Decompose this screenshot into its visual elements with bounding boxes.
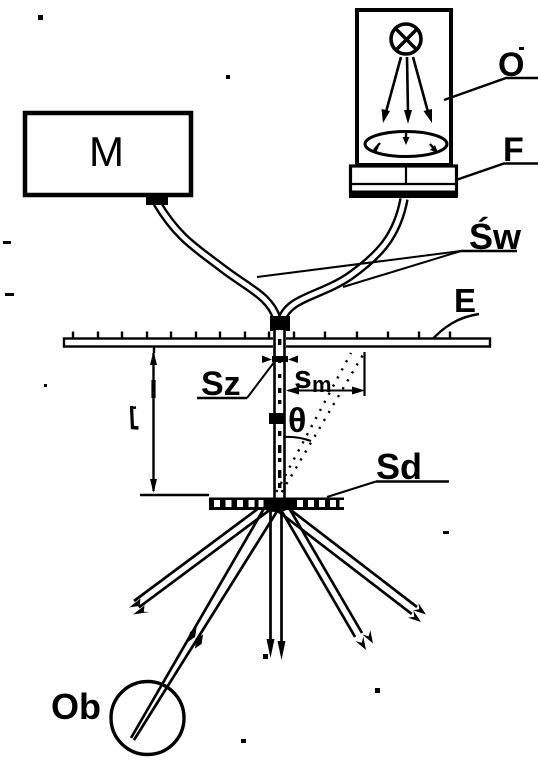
diffracted ray pair far-right with double arrowheads	[278, 504, 426, 622]
lamp housing box O	[357, 10, 451, 165]
label Sd with leader line	[327, 446, 449, 497]
diffracted ray pair far-left with double arrowheads	[129, 502, 272, 615]
label O with leader line	[444, 46, 538, 100]
dimension l vertical with arrows	[150, 347, 157, 494]
light ray centre inside lamp box	[404, 57, 412, 124]
label E with leader line	[429, 282, 479, 343]
ruler tick marks	[73, 332, 450, 339]
wire: left fiber cable from M to junction	[157, 203, 277, 319]
svg-text:E: E	[454, 282, 476, 319]
diffracted ray pair mid-right	[278, 501, 373, 650]
slit marker Sz on tube with side arrows	[262, 356, 298, 364]
light ray right inside lamp box	[413, 57, 432, 123]
svg-text:M: M	[89, 128, 124, 175]
dark slider block on tube	[269, 413, 284, 424]
light ray left inside lamp box	[382, 57, 402, 123]
dotted diffracted beam lines	[272, 353, 364, 500]
label l (script ell)	[131, 406, 139, 429]
label F with leader line	[456, 131, 538, 180]
black centre blob of grating where rays emanate	[261, 498, 291, 512]
wire: right fiber cable from F to junction	[282, 199, 404, 319]
filter holder F	[349, 166, 457, 198]
diffracted ray pair to eye (with mid arrowheads)	[131, 505, 281, 740]
box M	[25, 113, 191, 205]
angle arc	[283, 437, 311, 441]
eye circle Ob	[111, 682, 184, 755]
svg-text:θ: θ	[288, 402, 306, 440]
svg-text:Ob: Ob	[51, 686, 101, 727]
scale dashes inside tube	[278, 339, 281, 488]
diffraction grating Sd bar	[209, 498, 344, 511]
label Sz with leader line	[197, 361, 275, 403]
dimension s_m with arrows and extension line	[286, 352, 365, 397]
ruler E bar	[64, 339, 490, 347]
label Sw (fibers) with two leader lines	[257, 215, 522, 287]
lamp symbol (circle with X)	[391, 24, 421, 54]
condenser lens ellipse	[365, 132, 447, 157]
junction block where cables join tube	[270, 316, 290, 331]
baseline at grating level	[140, 494, 209, 497]
vertical sight tube	[273, 330, 286, 498]
svg-text:s: s	[294, 359, 312, 395]
central ray pair straight down	[267, 507, 286, 660]
